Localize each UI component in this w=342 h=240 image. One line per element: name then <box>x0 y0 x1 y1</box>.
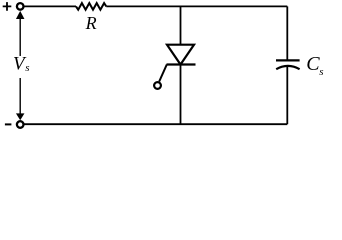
thyristor cathode bar <box>167 63 196 65</box>
svg-text:C: C <box>306 53 320 75</box>
thyristor gate lead <box>159 65 167 82</box>
voltage arrow lower (points down at - terminal) <box>19 78 21 115</box>
wire top rail right (resistor to top-right corner) <box>106 5 287 7</box>
svg-text:R: R <box>85 13 97 33</box>
svg-text:s: s <box>25 62 29 74</box>
capacitor Cs top plate <box>276 59 300 61</box>
wire right branch lower (capacitor to bottom rail) <box>286 66 288 124</box>
terminal node bottom-left <box>17 121 24 128</box>
wire top rail left (terminal to resistor) <box>24 5 76 7</box>
gate terminal circle <box>154 82 161 89</box>
svg-text:s: s <box>319 66 323 78</box>
wire right branch upper (top-right corner to capacitor) <box>286 6 288 60</box>
thyristor U1 triangle <box>167 45 194 65</box>
capacitor Cs curved plate <box>276 66 299 69</box>
wire middle branch lower (cathode to bottom rail) <box>180 65 182 125</box>
plus sign <box>3 2 12 11</box>
wire middle branch upper (top rail to thyristor anode) <box>180 6 182 44</box>
terminal node top-left <box>17 3 24 10</box>
wire bottom rail <box>24 123 287 125</box>
minus sign <box>5 123 11 125</box>
resistor R <box>76 3 106 10</box>
voltage arrow upper (points up at + terminal) <box>16 11 25 19</box>
